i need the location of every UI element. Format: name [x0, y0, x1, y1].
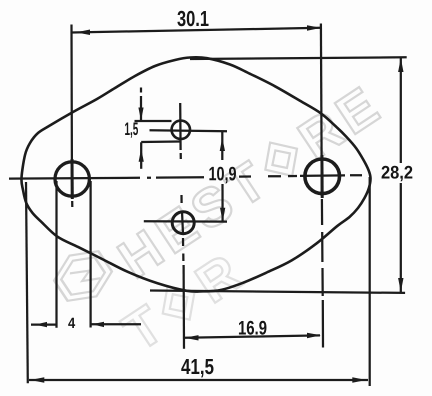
dimension line 28.2 lower	[400, 183, 402, 293]
left hole vertical centerline / 30.1 extension	[70, 25, 73, 208]
arrow 10,9 down	[220, 208, 225, 222]
arrow 16.9 right	[307, 333, 321, 338]
dimension line 41.5	[29, 379, 368, 381]
right hole centerline dashed below	[322, 199, 323, 348]
label 4	[68, 318, 75, 328]
label 41,5	[181, 359, 213, 377]
bottom pin hole horizontal centerline	[144, 220, 227, 223]
dim 4 left extension	[55, 181, 57, 328]
arrow 1,5 down	[138, 108, 143, 121]
dimension line 28.2 upper	[400, 58, 402, 164]
label 1,5	[125, 123, 138, 138]
arrow 30.1 right	[307, 25, 321, 31]
left tip extension line	[26, 182, 28, 383]
watermark text HESTORE	[108, 73, 394, 290]
label 30.1	[177, 11, 208, 26]
watermark logo hexagon	[47, 241, 118, 311]
dim 1,5 lower leader	[140, 142, 142, 169]
dim 1,5 upper leader	[140, 88, 142, 121]
bottom tangent extension line	[150, 291, 405, 293]
arrow 10,9 up	[220, 138, 225, 152]
label 16.9	[239, 321, 267, 335]
dim 4 right arrow line	[92, 323, 142, 325]
dimension line 30.1	[72, 28, 322, 33]
label 10,9	[209, 167, 236, 184]
bottom pin hole vertical centerline	[182, 195, 184, 261]
horizontal centerline right segment	[239, 175, 362, 176]
top pin hole	[172, 121, 190, 139]
watermark faint second row	[113, 243, 251, 363]
arrow 4 left (points left)	[35, 322, 47, 327]
right hole crosshair vertical thick	[320, 155, 323, 198]
dim 10,9 line upper	[221, 131, 223, 160]
top pin hole horizontal centerline	[150, 130, 228, 131]
dimension line 16.9	[185, 335, 320, 337]
dim 1,5 top tick	[135, 120, 172, 122]
arrow 4 right (points left)	[92, 322, 104, 327]
arrow 28.2 down	[398, 278, 403, 292]
top tangent extension line	[190, 57, 407, 59]
arrow 28.2 up	[398, 58, 403, 72]
right tip extension line	[369, 177, 371, 386]
arrow 30.1 left	[76, 30, 90, 36]
16.9 left extension line	[182, 265, 185, 349]
top pin hole vertical centerline	[179, 103, 182, 159]
arrow 16.9 left	[185, 335, 199, 340]
dim 4 right extension	[89, 181, 91, 328]
arrow 41.5 left	[30, 377, 44, 383]
left mounting hole	[55, 162, 89, 196]
bottom pin hole	[172, 212, 194, 234]
left hole crosshair vertical thick	[71, 159, 74, 199]
dim 4 left arrow line	[31, 323, 57, 325]
dim 1,5 bottom tick	[141, 140, 180, 143]
dim 10,9 line lower	[221, 184, 223, 222]
horizontal centerline left segment	[9, 177, 204, 178]
right mounting hole	[305, 159, 340, 194]
arrow 1,5 up	[139, 149, 144, 162]
flange outline	[21, 57, 370, 291]
arrow 41.5 right	[352, 377, 366, 383]
label 28,2	[382, 166, 413, 182]
right hole vertical centerline / 30.1 extension	[320, 24, 323, 197]
